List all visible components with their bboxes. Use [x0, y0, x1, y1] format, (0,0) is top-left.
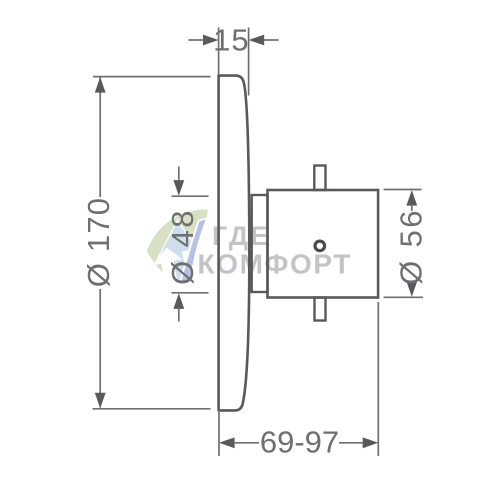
- dim Ø48: bottom extension tick: [172, 292, 209, 294]
- watermark blue arrow: [159, 222, 197, 282]
- dim Ø48: top extension tick: [172, 195, 209, 197]
- dim Ø170: bottom extension line: [93, 408, 211, 410]
- bottom tab: [315, 298, 326, 321]
- svg-text:Ø 56: Ø 56: [394, 208, 429, 285]
- dim 15: right extension line: [248, 28, 250, 96]
- dim 15: right arrow: [249, 35, 265, 46]
- valve body: [268, 190, 379, 298]
- escutcheon plate (side view): [219, 76, 250, 411]
- svg-text:5: 5: [231, 23, 248, 58]
- collar: [252, 195, 268, 292]
- center screw hole: [315, 241, 325, 251]
- watermark blue arrow white rim: [159, 222, 197, 282]
- dim Ø170: top extension line: [93, 76, 211, 78]
- dim 69-97: right arrow: [363, 437, 379, 448]
- dim 69-97: left arrow: [219, 437, 235, 448]
- dim Ø48: bottom arrow (pointing up): [173, 293, 184, 309]
- dim 69-97: line left segment: [234, 442, 259, 444]
- watermark swoosh (periwinkle): [180, 218, 208, 284]
- watermark white arrow: [153, 248, 183, 285]
- dim 15: left arrow: [203, 35, 219, 46]
- dim Ø48: top arrow (pointing down): [173, 180, 184, 196]
- dim Ø170: dimension line lower segment: [99, 289, 101, 408]
- dim Ø56: bottom arrow (pointing down): [406, 281, 417, 297]
- dim 69-97: left extension line: [218, 412, 220, 456]
- svg-text:КОМФОРТ: КОМФОРТ: [198, 248, 352, 279]
- watermark leaf (green): [147, 209, 208, 278]
- svg-text:Ø 48: Ø 48: [165, 208, 200, 285]
- svg-text:1: 1: [213, 23, 230, 58]
- dim Ø56: bottom extension line: [384, 296, 424, 298]
- dim 69-97: line right segment: [339, 442, 364, 444]
- svg-text:69-97: 69-97: [260, 425, 339, 460]
- top tab: [314, 166, 325, 191]
- dim 69-97: right extension line: [377, 302, 379, 456]
- dim Ø170: bottom arrow: [95, 393, 106, 409]
- svg-text:ГДЕ: ГДЕ: [212, 221, 270, 251]
- dim Ø170: top arrow: [95, 77, 106, 93]
- dim 15: left extension line: [218, 28, 220, 76]
- dim Ø56: top extension line: [384, 189, 422, 191]
- dim Ø170: dimension line upper segment: [99, 77, 101, 197]
- svg-text:Ø 170: Ø 170: [81, 197, 116, 287]
- dim Ø56: top arrow (pointing up): [406, 190, 417, 206]
